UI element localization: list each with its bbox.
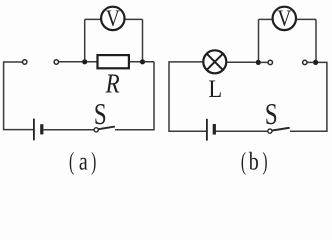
svg-text:R: R [105, 70, 120, 99]
svg-text:a: a [79, 147, 88, 175]
svg-text:S: S [94, 97, 107, 131]
svg-text:L: L [208, 76, 222, 103]
svg-text:): ) [91, 148, 96, 176]
svg-text:(: ( [241, 148, 246, 176]
svg-text:): ) [262, 148, 267, 176]
svg-text:S: S [265, 97, 278, 131]
svg-text:(: ( [69, 148, 74, 176]
svg-text:b: b [249, 147, 259, 175]
svg-text:V: V [106, 5, 121, 31]
svg-text:V: V [277, 5, 292, 31]
